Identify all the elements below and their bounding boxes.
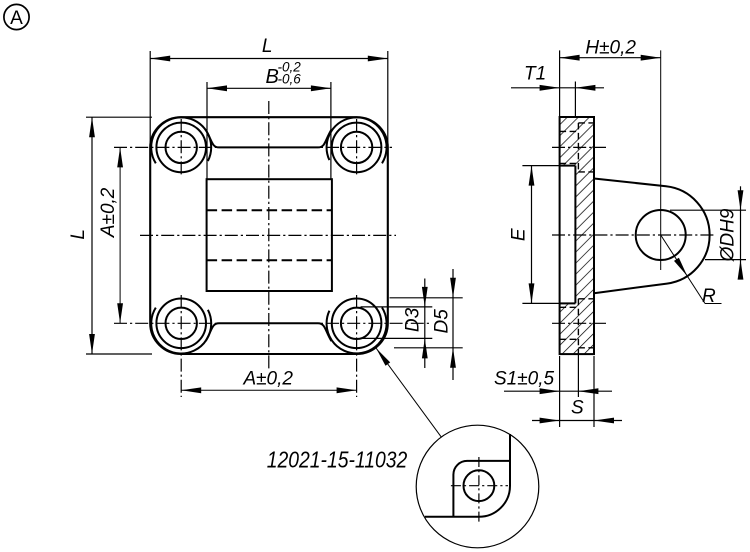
detail leader arrow — [376, 348, 390, 366]
centerline top-left hole vertical — [180, 119, 182, 177]
recess dip line between top holes — [206, 130, 332, 148]
svg-text:ØDH9: ØDH9 — [718, 208, 739, 262]
centerline lug hole horizontal — [552, 234, 716, 236]
centerline top holes horizontal — [114, 146, 392, 148]
dimension ØDH9 — [670, 186, 746, 278]
svg-text:L: L — [68, 229, 89, 240]
recess arc around top-right hole — [327, 117, 387, 163]
dimension B top — [207, 82, 331, 179]
view label A circle — [4, 4, 29, 29]
detail centerline horizontal — [451, 485, 508, 487]
recess dip line between bottom holes — [206, 323, 332, 341]
svg-text:R: R — [702, 286, 716, 307]
svg-text:A: A — [10, 8, 23, 29]
centerline bottom holes horizontal — [114, 322, 431, 324]
detail corner outline — [425, 434, 510, 517]
svg-text:D3: D3 — [403, 307, 424, 332]
detail circle A — [416, 425, 539, 548]
centerline bottom-left hole vertical — [180, 295, 182, 397]
dimension E — [522, 166, 559, 304]
dimension S — [532, 356, 622, 427]
hidden lines top hole side view — [560, 123, 594, 172]
centerline bottom hole side view — [552, 322, 606, 324]
recess arc around top-left hole — [151, 117, 211, 163]
hidden line lug hole top tangent — [207, 209, 332, 211]
side view plate outline — [560, 117, 594, 354]
radius R leader — [661, 235, 705, 304]
dimension L top — [150, 51, 388, 144]
detail recess corner — [453, 461, 510, 517]
dimension L left — [86, 117, 152, 354]
central boss square — [207, 179, 332, 291]
plate right edge redraw — [593, 117, 595, 354]
dimension S1 — [504, 354, 612, 397]
lug outline side view — [594, 179, 710, 294]
svg-text:H±0,2: H±0,2 — [585, 38, 636, 59]
dimension D3 — [361, 279, 433, 369]
centerline top hole side view — [552, 146, 606, 148]
centerline vertical front view — [268, 101, 270, 369]
detail centerline vertical — [478, 457, 480, 523]
dimension D5 — [390, 269, 463, 380]
hidden lines bottom hole side view — [560, 299, 594, 354]
centerline lug hole vertical / H extension — [660, 50, 662, 270]
recess arc around bottom-right hole — [327, 308, 387, 354]
dimension A bottom — [181, 389, 356, 391]
detail hole circle — [464, 470, 495, 501]
counterbore hole bottom-left — [156, 299, 206, 349]
centerline top-right hole vertical — [356, 119, 358, 177]
side view hatch top block — [560, 117, 594, 166]
svg-text:T1: T1 — [524, 64, 546, 85]
dimension T1 — [511, 82, 604, 118]
recess arc around bottom-left hole — [151, 308, 211, 354]
dimension A left — [119, 147, 121, 323]
svg-text:12021-15-11032: 12021-15-11032 — [267, 447, 408, 473]
svg-text:E: E — [509, 228, 530, 241]
lug hole ØD — [636, 210, 686, 260]
counterbore hole top-left — [156, 123, 206, 173]
side view recess bottom edge — [560, 302, 576, 304]
counterbore hole bottom-right — [332, 299, 382, 349]
centerline bottom-right hole vertical — [356, 295, 358, 397]
svg-text:S1±0,5: S1±0,5 — [494, 369, 555, 390]
part outline front view — [150, 117, 388, 354]
svg-text:A±0,2: A±0,2 — [242, 369, 293, 390]
svg-text:A±0,2: A±0,2 — [98, 187, 119, 238]
centerline horizontal front view — [140, 234, 396, 236]
svg-text:D5: D5 — [432, 309, 453, 334]
counterbore hole top-right — [332, 123, 382, 173]
svg-text:-0,6: -0,6 — [278, 71, 302, 86]
dimension H top — [560, 50, 661, 117]
svg-text:S: S — [571, 398, 584, 419]
hidden line lug hole bottom tangent — [207, 259, 332, 261]
side view hatch middle column — [575, 166, 594, 304]
side view hatch bottom block — [560, 303, 594, 354]
side view recess face edge — [574, 166, 576, 304]
detail leader line — [376, 348, 441, 437]
side view recess top edge — [560, 165, 576, 167]
svg-text:L: L — [262, 36, 273, 57]
